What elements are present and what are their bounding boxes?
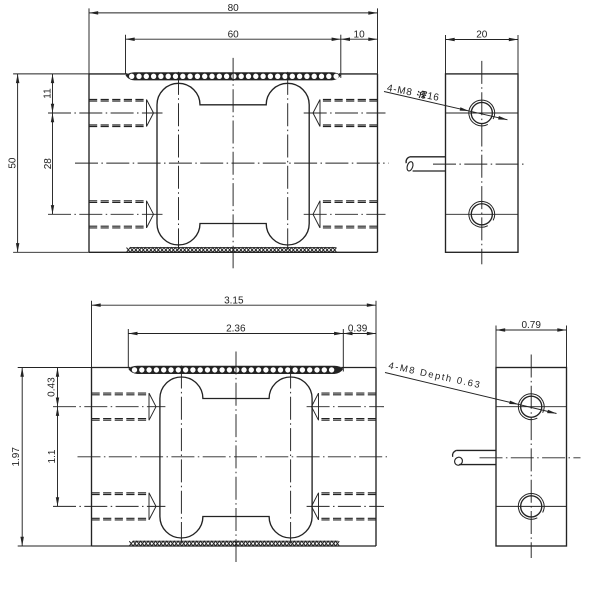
svg-text:1.97: 1.97 [11, 447, 22, 467]
inch view lower hole centreline [53, 505, 165, 507]
inch view upper right tapped hole M8 (hidden lines) [312, 393, 377, 420]
leader annotation 4-M8 Depth 0.63 [385, 360, 557, 413]
metric view side view upper hole step line [446, 112, 519, 114]
svg-text:28: 28 [43, 158, 54, 170]
metric view side view body outline [446, 74, 519, 252]
svg-text:16: 16 [426, 91, 440, 104]
inch view side view upper M8 tapped hole [518, 394, 544, 420]
metric view right lobe centreline [287, 72, 289, 250]
metric view left lobe centreline [178, 72, 180, 250]
dimension 11 top edge to upper hole [52, 74, 54, 113]
metric view top knurled strip [126, 72, 341, 80]
metric view front view vertical centreline [232, 58, 234, 268]
svg-text:10: 10 [354, 29, 366, 40]
inch view lower left tapped hole M8 (hidden lines) [92, 493, 157, 520]
dimension 50 overall height [7, 74, 89, 252]
inch view front view vertical centreline [235, 352, 237, 563]
inch view right lobe centreline [290, 366, 292, 544]
metric view side view lower hole step line [446, 213, 519, 215]
svg-text:80: 80 [228, 3, 240, 14]
metric view front view horizontal centreline [75, 162, 389, 164]
metric view side view upper M8 tapped hole [469, 100, 495, 126]
inch view bottom knurled strip [129, 541, 339, 546]
metric view side view horizontal centreline [433, 163, 525, 165]
dimension 80 overall width [89, 3, 378, 74]
svg-text:20: 20 [476, 30, 488, 41]
svg-text:2.36: 2.36 [226, 324, 246, 335]
svg-text:0.43: 0.43 [46, 377, 57, 397]
inch view left lobe centreline [180, 366, 182, 544]
dimension 0.39 strip offset [343, 324, 376, 336]
metric view lower hole centreline [48, 213, 163, 215]
inch view side view lower hole step line [496, 505, 567, 507]
dimension 20 side view width [446, 30, 519, 74]
svg-text:0.79: 0.79 [521, 320, 541, 331]
inch view side view vertical centreline [530, 355, 532, 559]
inch view front view horizontal centreline [78, 456, 388, 458]
dimension 3.15 overall width [92, 295, 377, 367]
metric view cable outlet [406, 157, 446, 172]
metric view central bone-shaped cutout [157, 83, 309, 245]
leader annotation 4-M8 depth 16 [384, 83, 508, 120]
metric view upper right tapped hole M8 (hidden lines) [313, 100, 378, 127]
dimension 2.36 strip width [128, 324, 343, 372]
metric view bottom knurled strip [127, 248, 337, 253]
inch view side view body outline [496, 368, 567, 547]
metric view front view body outline [89, 74, 378, 252]
svg-text:1.1: 1.1 [47, 449, 58, 463]
metric view side view lower M8 tapped hole [469, 201, 495, 227]
svg-text:0.39: 0.39 [348, 324, 368, 335]
dimension 28 hole spacing [52, 113, 54, 214]
metric view lower left tapped hole M8 (hidden lines) [89, 201, 154, 228]
inch view front view body outline [92, 368, 377, 547]
dimension 1.1 hole spacing [57, 407, 59, 507]
inch view upper hole centreline [53, 406, 165, 408]
inch view lower right tapped hole M8 (hidden lines) [312, 493, 377, 520]
svg-text:3.15: 3.15 [224, 295, 244, 306]
dimension 10 strip offset [341, 29, 378, 41]
metric view upper left tapped hole M8 (hidden lines) [89, 100, 154, 127]
inch view upper left tapped hole M8 (hidden lines) [92, 393, 157, 420]
inch view cable outlet [453, 450, 496, 466]
svg-text:11: 11 [42, 88, 53, 99]
inch view central bone-shaped cutout [160, 377, 312, 538]
svg-text:60: 60 [228, 29, 240, 40]
svg-text:50: 50 [7, 157, 18, 169]
metric view lower right tapped hole M8 (hidden lines) [313, 201, 378, 228]
inch view side view horizontal centreline [480, 457, 581, 459]
dimension 1.97 overall height [11, 368, 92, 547]
dimension 0.43 top edge to upper hole [57, 368, 59, 407]
inch view top knurled strip [128, 366, 343, 374]
inch view side view lower M8 tapped hole [518, 494, 544, 520]
dimension 0.79 side view width [496, 320, 567, 367]
inch view side view upper hole step line [496, 406, 567, 408]
metric view upper hole centreline [48, 112, 163, 114]
metric view side view vertical centreline [481, 61, 483, 264]
dimension 60 strip width [126, 29, 341, 78]
